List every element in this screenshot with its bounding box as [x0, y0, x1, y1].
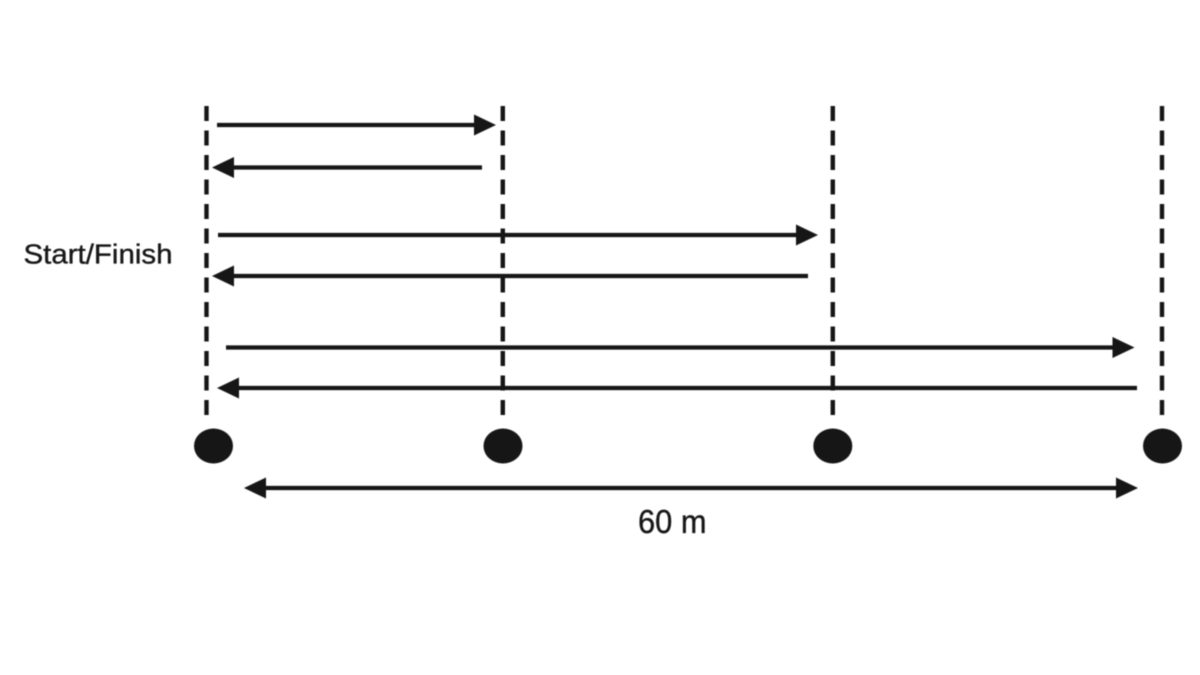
cone dot 4 [1143, 429, 1182, 464]
marker line 4 (dashed line, far turn point) [1160, 106, 1164, 418]
cone dot 1 (start/finish marker) [194, 429, 233, 464]
marker line 3 (dashed line, second turn point) [831, 106, 835, 418]
cone dot 2 [484, 429, 523, 464]
arrow 3: second out leg (rightward) [218, 225, 818, 246]
marker line 1 (start/finish dashed line) [204, 106, 208, 418]
cone dot 3 [813, 429, 852, 464]
svg-text:Start/Finish: Start/Finish [24, 239, 173, 270]
arrow 6: third return leg (leftward) [217, 378, 1137, 399]
arrow 1: first out leg (rightward) [217, 115, 496, 136]
arrow 2: first return leg (leftward) [212, 157, 482, 178]
arrow 4: second return leg (leftward) [212, 266, 808, 287]
svg-text:60 m: 60 m [638, 503, 707, 540]
60 m dimension arrow (double-headed) [244, 478, 1138, 499]
arrow 5: third out leg (rightward) [226, 337, 1135, 358]
marker line 2 (dashed line, first turn point) [501, 106, 505, 418]
